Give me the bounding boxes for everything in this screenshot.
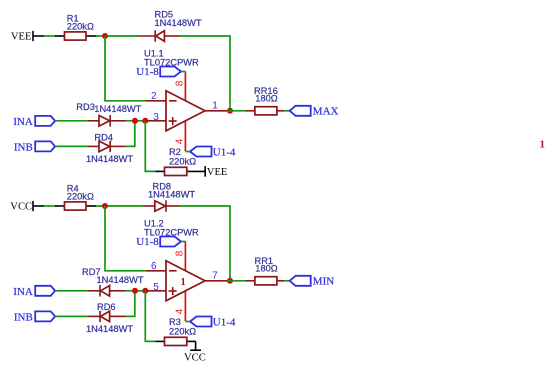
pin 8 power stub [184,71,186,101]
diode RD6 [86,302,133,334]
svg-text:5: 5 [153,282,159,293]
svg-text:R2: R2 [169,147,181,157]
resistor RR1 [245,256,284,285]
port INB (bottom) [14,311,55,323]
svg-text:U1-8: U1-8 [136,236,159,248]
resistor R4 [55,184,96,210]
junction node B (pin 3 / R2) [142,118,148,124]
wire U1-8 port to pin 8 [181,71,185,73]
svg-text:RD3: RD3 [76,102,95,112]
wire RD6 riser to node C [126,291,135,317]
pin 2 stub [146,100,166,102]
svg-text:1: 1 [181,277,186,288]
wire INA to RD3 [55,120,88,122]
svg-text:220kΩ: 220kΩ [169,326,196,336]
power port VEE (top left, bar style) [11,31,44,43]
wire U1-8 port to pin 8 [181,241,185,243]
port INA (bottom) [13,286,55,298]
resistor RR16 [245,86,284,115]
svg-text:1N4148WT: 1N4148WT [86,154,133,164]
diode RD3 [76,102,141,126]
wire output node to RR16 [227,110,245,112]
wire RD5 to output node [180,36,230,111]
svg-text:U1-4: U1-4 [213,146,236,158]
svg-text:U1-8: U1-8 [136,66,159,78]
svg-text:INA: INA [13,286,33,298]
wire node to pin 2 [105,36,146,101]
svg-text:1N4148WT: 1N4148WT [94,104,141,114]
power port VCC (bottom left, bar style) [10,201,44,213]
svg-text:INB: INB [14,141,33,153]
svg-text:3: 3 [153,112,159,123]
wire pin 4 to U1-4 port [185,151,190,153]
power port VCC (below R3, bar style) [184,341,206,363]
junction at op-amp 2 output [227,278,233,284]
non-inverting input plus sign [169,290,177,292]
triangle body [166,91,205,131]
svg-text:4: 4 [175,308,186,314]
svg-text:VCC: VCC [184,353,206,364]
svg-text:1N4148WT: 1N4148WT [148,190,195,200]
pin 6 stub [146,270,166,272]
svg-text:220kΩ: 220kΩ [169,156,196,166]
svg-text:6: 6 [151,261,157,272]
wire RD3 to pin 3 [126,120,147,122]
svg-text:MIN: MIN [313,276,334,288]
wire node to pin 6 [105,206,146,271]
pin 8 power stub [184,241,186,271]
svg-text:VCC: VCC [10,202,32,213]
wire riser node D to R3 [145,291,155,342]
wire VCC to R4 [44,205,56,207]
wire R4 to RD8 [96,205,143,207]
power port VEE (right of R2, bar style) [205,166,227,178]
wire RD8 to output node [180,206,230,281]
wire RR16 to MAX port [284,110,289,112]
svg-text:2: 2 [151,91,157,102]
inverting input minus sign [169,100,177,102]
svg-text:RD4: RD4 [94,132,113,142]
junction at op-amp 1 output [227,108,233,114]
svg-text:1: 1 [212,100,218,111]
svg-text:1N4148WT: 1N4148WT [97,275,144,285]
pin 1 output stub [205,110,227,112]
pin 4 power stub [184,121,186,151]
resistor R2 [156,147,206,176]
pin 7 output stub [205,280,227,282]
junction at node R1/RD5/pin2 [102,33,108,39]
wire VEE to R1 [44,35,56,37]
wire INB to RD4 [55,145,88,147]
wire RD7 to pin 5 [126,290,147,292]
svg-text:180Ω: 180Ω [255,263,278,273]
svg-text:8: 8 [175,250,186,256]
resistor R1 [55,14,96,40]
svg-text:INB: INB [14,311,33,323]
diode RD8 [143,181,195,211]
svg-text:MAX: MAX [313,106,339,118]
junction node C (RD7/RD6) [132,288,138,294]
junction at node R4/RD8/pin6 [102,203,108,209]
wire riser node B to R2 [145,121,155,172]
svg-text:RD6: RD6 [97,302,116,312]
svg-text:INA: INA [13,116,33,128]
port U1-8 (bottom) [136,236,181,248]
svg-text:7: 7 [212,270,218,281]
svg-text:U1-4: U1-4 [213,316,236,328]
port MIN [290,276,335,288]
junction node A (RD3/RD4) [132,118,138,124]
wire INB to RD6 [55,315,88,317]
op-amp U1.1 [144,49,227,152]
inverting input minus sign [169,270,177,272]
non-inverting input plus sign [169,120,177,122]
diode RD4 [86,132,133,164]
svg-text:4: 4 [175,138,186,144]
port MAX [290,106,339,118]
svg-text:220kΩ: 220kΩ [67,192,94,202]
port U1-4 (top) [190,146,236,158]
svg-text:1N4148WT: 1N4148WT [155,18,202,28]
pin 3 stub [146,120,166,122]
wire RD4 riser to node A [126,121,135,147]
svg-text:1: 1 [540,138,546,150]
pin 5 stub [146,290,166,292]
wire R1 to RD5 [96,35,137,37]
svg-text:1N4148WT: 1N4148WT [86,324,133,334]
wire RR1 to MIN port [284,280,289,282]
pin 4 power stub [184,291,186,321]
resistor R3 [156,317,197,346]
port INA (top) [13,116,55,128]
port INB (top) [14,141,55,153]
wire output node to RR1 [227,280,245,282]
svg-text:VEE: VEE [11,32,32,43]
port U1-8 (top) [136,66,181,78]
wire INA to RD7 [55,290,88,292]
triangle body [166,261,205,301]
svg-text:180Ω: 180Ω [255,93,278,103]
junction node D (pin 5 / R3) [142,288,148,294]
port U1-4 (bottom) [190,316,236,328]
svg-text:220kΩ: 220kΩ [67,22,94,32]
svg-text:R3: R3 [169,317,181,327]
svg-text:VEE: VEE [207,167,228,178]
diode RD7 [82,267,144,296]
wire pin 4 to U1-4 port [185,321,190,323]
svg-text:8: 8 [175,80,186,86]
op-amp U1.2 [144,219,227,322]
diode RD5 [137,9,202,41]
